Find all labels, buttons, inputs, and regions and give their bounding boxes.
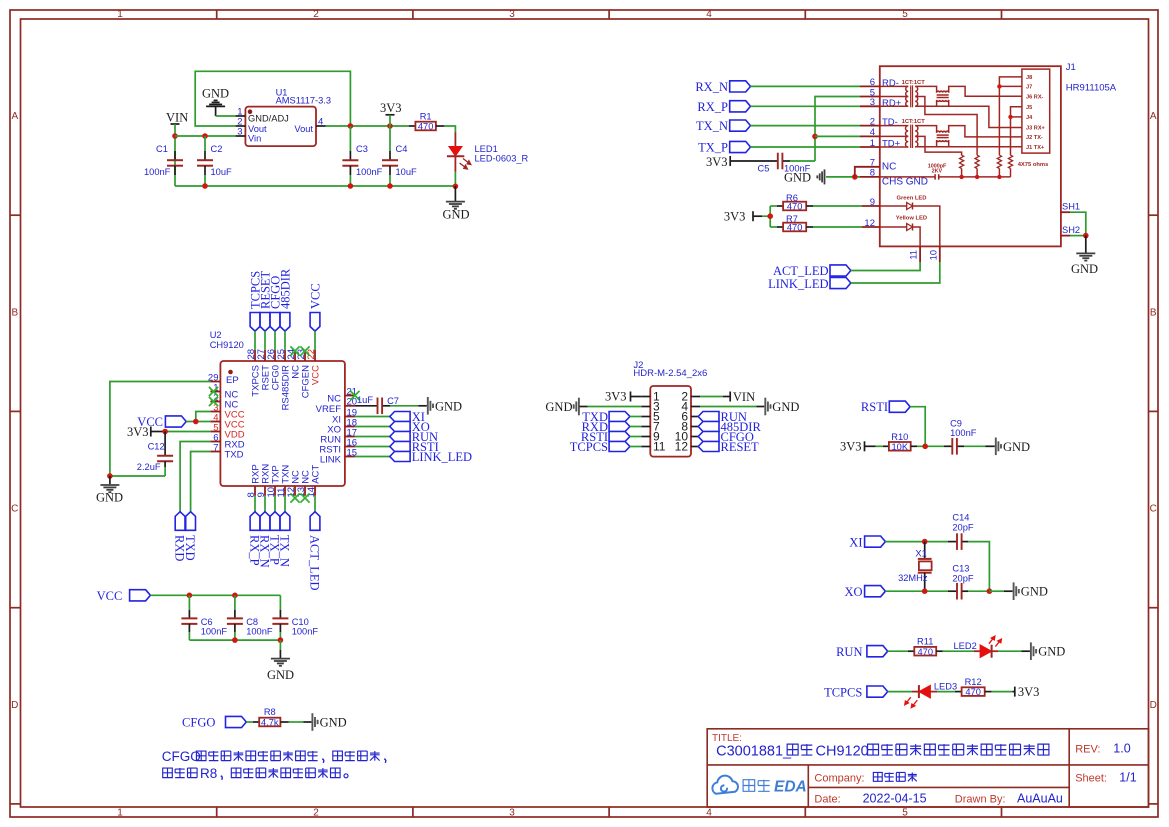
ground GND R8	[311, 713, 313, 731]
pin 25 U2 RS485DIR	[284, 350, 286, 361]
resistor 75ohm a	[960, 155, 964, 168]
svg-text:GND: GND	[1038, 645, 1065, 659]
wire TCPCS to LED3	[888, 691, 912, 693]
svg-text:GND: GND	[1021, 585, 1048, 599]
svg-text:CFGO: CFGO	[182, 716, 215, 730]
node C2 top	[202, 133, 208, 139]
net flag ACT_LED bottom	[314, 496, 316, 512]
net flag XI right	[355, 416, 390, 418]
svg-text:100nF: 100nF	[292, 627, 319, 637]
svg-text:R8: R8	[200, 766, 217, 781]
svg-text:J2 TX-: J2 TX-	[1026, 135, 1043, 141]
svg-text:VREF: VREF	[316, 404, 342, 415]
svg-text:3V3: 3V3	[706, 155, 728, 169]
capacitor C1	[174, 151, 176, 160]
svg-text:X1: X1	[915, 548, 926, 558]
ground GND J2 right	[700, 406, 757, 408]
svg-text:ACT: ACT	[310, 465, 321, 484]
svg-text:TX_P: TX_P	[698, 141, 728, 155]
svg-text:CHS GND: CHS GND	[882, 176, 928, 187]
svg-text:REV:: REV:	[1075, 744, 1100, 756]
pin 7 U2 TXD	[210, 451, 220, 453]
pin 4 J1	[860, 135, 880, 137]
svg-text:R8: R8	[264, 707, 276, 717]
svg-text:100nF: 100nF	[144, 167, 171, 177]
svg-text:LED1: LED1	[475, 144, 498, 154]
svg-text:C10: C10	[292, 617, 309, 627]
svg-text:3V3: 3V3	[605, 390, 627, 404]
svg-text:20pF: 20pF	[952, 573, 974, 583]
svg-text:RX_P: RX_P	[697, 100, 728, 114]
net flag 485DIR top	[280, 313, 290, 332]
svg-text:C2: C2	[211, 144, 223, 154]
svg-text:R10: R10	[891, 432, 908, 442]
svg-text:C8: C8	[246, 617, 258, 627]
node VIN junction	[172, 133, 178, 139]
svg-text:485DIR: 485DIR	[278, 268, 292, 309]
svg-text:SH1: SH1	[1062, 202, 1080, 212]
wire C7 to gnd	[390, 405, 419, 407]
net flag TXD	[186, 512, 196, 531]
pin 2 U2 NC	[210, 401, 220, 403]
capacitor C10	[279, 595, 281, 610]
power flag 3V3 LED3	[1012, 691, 1014, 693]
svg-text:2: 2	[870, 116, 875, 127]
svg-text:C3: C3	[356, 144, 368, 154]
node rail C10	[278, 637, 284, 643]
wire TX choke to J2	[949, 126, 1022, 137]
svg-text:10uF: 10uF	[211, 167, 233, 177]
pin 29 EP	[228, 370, 233, 375]
svg-text:TXD: TXD	[225, 450, 244, 461]
svg-text:1uF: 1uF	[357, 395, 373, 405]
svg-text:C1: C1	[156, 144, 168, 154]
svg-text:2: 2	[313, 9, 319, 20]
capacitor C6	[188, 595, 190, 610]
wire RXD down	[180, 442, 210, 512]
svg-text:100nF: 100nF	[356, 167, 383, 177]
svg-text:470: 470	[965, 687, 981, 697]
pin 5 J1	[860, 96, 880, 98]
svg-text:J3 RX+: J3 RX+	[1026, 126, 1046, 132]
pin 10 J1	[939, 246, 941, 262]
pin 11 J2	[641, 446, 650, 448]
node XI	[922, 539, 928, 545]
pin 3 J2	[641, 406, 650, 408]
resistor 75ohm d	[1008, 155, 1012, 168]
svg-text:D: D	[1150, 700, 1157, 711]
svg-text:GND/ADJ: GND/ADJ	[248, 114, 289, 124]
svg-text:470: 470	[917, 647, 933, 657]
wire RX_P	[751, 105, 861, 107]
node pin4 junction	[812, 134, 818, 140]
svg-text:RD+: RD+	[882, 98, 902, 109]
pin 1 J2	[641, 396, 650, 398]
svg-text:RESET: RESET	[721, 440, 760, 454]
svg-text:100nF: 100nF	[246, 627, 273, 637]
node VCC pins	[193, 419, 199, 425]
node 3V3 R6R7	[767, 213, 773, 219]
svg-text:HR911105A: HR911105A	[1066, 83, 1117, 94]
svg-text:2.2uF: 2.2uF	[137, 462, 161, 472]
pin 14 U2 ACT	[314, 486, 316, 496]
wire TXD J2	[630, 416, 641, 418]
pin SH2	[1061, 235, 1070, 237]
svg-text:GND: GND	[772, 400, 799, 414]
net flag TX_P bottom	[274, 496, 276, 512]
node VCC C8	[232, 593, 238, 599]
svg-text:GND: GND	[435, 399, 462, 413]
node rail C8	[232, 637, 238, 643]
svg-text:RX_N: RX_N	[695, 80, 728, 94]
choke TX common-mode	[915, 126, 936, 133]
wire gnd rail caps	[189, 639, 280, 641]
pin 3 U2 VCC	[210, 411, 220, 413]
svg-text:GND: GND	[1003, 440, 1030, 454]
svg-text:2KV: 2KV	[932, 169, 943, 175]
svg-text:J1: J1	[1066, 62, 1076, 73]
svg-text:CH9120: CH9120	[210, 340, 244, 350]
wire R6 to pin9	[813, 205, 862, 207]
wire R1 to LED1	[444, 126, 455, 132]
resistor R1	[409, 125, 415, 127]
wire J8 J7 to R75c	[999, 77, 1022, 155]
svg-text:R11: R11	[917, 637, 933, 647]
node gnd U2	[107, 473, 113, 479]
svg-text:1: 1	[117, 9, 123, 20]
svg-text:10K: 10K	[892, 442, 909, 452]
ground GND C7	[427, 397, 429, 415]
choke RX common-mode	[915, 86, 936, 92]
svg-text:C: C	[1150, 504, 1157, 515]
wire CHS GND rail	[939, 176, 1011, 178]
svg-text:10: 10	[928, 250, 938, 260]
svg-text:C5: C5	[758, 164, 770, 174]
svg-text:Vout: Vout	[294, 124, 313, 134]
wire RX center tap to R75b	[915, 97, 977, 156]
node rail C3	[348, 183, 354, 189]
pin 11 J1	[919, 246, 921, 262]
wire TX secondary bottom to J1TX+	[915, 146, 1022, 148]
net flag CFGO J2 right	[698, 436, 700, 438]
svg-text:9: 9	[870, 197, 875, 208]
pin 27 U2 RSET	[264, 350, 266, 361]
svg-text:LINK: LINK	[320, 455, 342, 466]
svg-text:GND: GND	[202, 87, 229, 101]
svg-text:C12: C12	[148, 441, 165, 451]
capacitor C9	[944, 445, 952, 447]
svg-text:AuAuAu: AuAuAu	[1017, 792, 1063, 806]
pin 2 J1	[860, 125, 880, 127]
net flag CFGO top	[270, 313, 280, 332]
svg-text:Company:: Company:	[814, 773, 864, 785]
wire J5 J4 to R75d	[1011, 107, 1022, 155]
svg-text:1.0: 1.0	[1113, 742, 1130, 756]
wire XO node	[885, 590, 948, 592]
svg-text:EDA: EDA	[774, 779, 807, 796]
wire gnd to pin8	[826, 176, 860, 178]
pin 4 U2 VCC	[210, 421, 220, 423]
svg-text:C: C	[11, 504, 18, 515]
op-amp U1 AMS1117-3.3	[245, 107, 316, 147]
svg-text:4: 4	[870, 127, 875, 138]
crystal X1 32MHz	[924, 542, 926, 559]
net flag RUN right	[355, 436, 390, 438]
wire C12 gnd	[110, 475, 165, 477]
wire TXD down	[191, 452, 211, 512]
pin 4 J2	[691, 406, 700, 408]
wire LED1 to rail	[454, 172, 456, 186]
svg-text:3V3: 3V3	[840, 440, 862, 454]
pin 19 U2 XI	[345, 416, 355, 418]
wire VCC rail	[150, 594, 280, 596]
svg-text:C6: C6	[201, 617, 213, 627]
svg-text:C4: C4	[396, 144, 408, 154]
net flag TCPCS top	[250, 313, 260, 332]
svg-text:VCC: VCC	[310, 365, 321, 385]
wire RSTI down	[910, 407, 925, 447]
pin 17 U2 RUN	[345, 436, 355, 438]
svg-text:J6 RX-: J6 RX-	[1026, 95, 1044, 101]
wire C14 down to gnd	[968, 542, 989, 592]
pin 16 U2 RSTI	[345, 446, 355, 448]
power flag VCC top	[310, 313, 320, 332]
pin 7 J1	[860, 166, 880, 168]
wire R8 to gnd	[289, 721, 304, 723]
wire yellow led to pin11	[913, 227, 921, 246]
pin 10 J2	[691, 436, 700, 438]
capacitor C5	[730, 160, 778, 162]
svg-text:U2: U2	[210, 330, 222, 340]
svg-text:J8: J8	[1026, 75, 1032, 81]
node rail LED1	[453, 184, 459, 190]
wire RX_N	[751, 85, 861, 87]
svg-text:20pF: 20pF	[952, 523, 974, 533]
svg-text:C9: C9	[950, 418, 962, 428]
svg-text:2: 2	[313, 808, 319, 819]
LED LED1	[454, 132, 456, 146]
no-connect X pin13	[300, 493, 309, 502]
svg-text:LINK_LED: LINK_LED	[412, 450, 472, 464]
svg-text:C7: C7	[387, 396, 399, 406]
wire Vout loop	[195, 71, 350, 126]
svg-text:EP: EP	[226, 375, 239, 386]
no-connect X pin23	[300, 346, 309, 355]
pin 7 J2	[641, 426, 650, 428]
svg-text:LINK_LED: LINK_LED	[768, 277, 828, 291]
wire GND to U1 pin1	[216, 115, 236, 117]
wire 3V3 to R6 R7	[762, 215, 770, 217]
pin 13 U2 NC	[304, 486, 306, 496]
node SH2	[1083, 233, 1089, 239]
svg-text:LED-0603_R: LED-0603_R	[475, 154, 529, 164]
wire CFGO to R8	[246, 721, 253, 723]
wire R7 to pin12	[813, 226, 862, 228]
pin 22 U2 VCC	[314, 350, 316, 361]
wire LINK_LED to pin10	[851, 262, 940, 283]
wire green led to pin10	[913, 206, 940, 246]
no-connect X pin2	[209, 397, 218, 406]
capacitor C7 VREF	[355, 405, 378, 407]
pin 1 J1	[860, 146, 880, 148]
pin 11 U2 TXN	[284, 486, 286, 496]
svg-text:XO: XO	[844, 585, 862, 599]
wire C13 to gnd	[968, 590, 989, 592]
svg-text:Date:: Date:	[814, 794, 840, 806]
node XO	[922, 588, 928, 594]
pin 9 J2	[641, 436, 650, 438]
svg-text:SH2: SH2	[1062, 225, 1080, 235]
wire 3V3 to VDD	[165, 431, 210, 433]
svg-text:GND: GND	[1071, 262, 1098, 276]
node J4 J5	[1008, 115, 1012, 119]
pin SH1	[1061, 211, 1070, 213]
net flag TX_N bottom	[284, 496, 286, 512]
wire TX center tap to R75a	[915, 136, 961, 155]
net flag 485DIR J2 right	[698, 426, 700, 428]
svg-text:B: B	[1150, 308, 1157, 319]
svg-text:CFGO: CFGO	[162, 749, 201, 764]
svg-text:1: 1	[117, 808, 123, 819]
wire R12 to 3V3	[992, 691, 1013, 693]
svg-text:Drawn By:: Drawn By:	[955, 794, 1006, 806]
svg-text:470: 470	[418, 122, 434, 132]
pin 12 U2 NC	[294, 486, 296, 496]
wire SH1 SH2 gnd	[1070, 212, 1086, 235]
svg-text:2022-04-15: 2022-04-15	[863, 792, 927, 806]
svg-text:GND: GND	[96, 491, 123, 505]
svg-text:Vin: Vin	[248, 134, 261, 144]
svg-text:HDR-M-2.54_2x6: HDR-M-2.54_2x6	[633, 368, 707, 379]
svg-text:VIN: VIN	[733, 390, 755, 404]
ground GND C9	[995, 438, 997, 456]
wire gnd to pin3	[580, 406, 588, 408]
svg-text:32MHz: 32MHz	[898, 573, 928, 583]
capacitor C12	[164, 432, 166, 456]
svg-text:GND: GND	[320, 716, 347, 730]
svg-text:4: 4	[706, 9, 712, 20]
svg-text:J1 TX+: J1 TX+	[1026, 145, 1045, 151]
svg-text:4: 4	[318, 117, 323, 128]
pin 10 U2 TXP	[274, 486, 276, 496]
svg-text:3V3: 3V3	[380, 101, 402, 115]
svg-text:11: 11	[909, 250, 919, 260]
svg-text:100nF: 100nF	[950, 428, 977, 438]
pin 2 J2	[691, 396, 700, 398]
logo EasyEDA	[712, 776, 738, 794]
node output 3V3	[387, 123, 393, 129]
svg-text:1/1: 1/1	[1119, 771, 1136, 785]
capacitor C13	[948, 590, 957, 592]
node output C3	[348, 123, 354, 129]
svg-text:C14: C14	[952, 513, 969, 523]
wire LED3 to R12	[937, 691, 955, 693]
svg-text:Vout: Vout	[248, 124, 267, 134]
wire U1 output rail	[326, 125, 409, 127]
svg-text:A: A	[1150, 111, 1157, 122]
ground GND crystal	[1013, 582, 1015, 600]
svg-text:GND: GND	[267, 668, 294, 682]
wire TCPCS to pin	[254, 331, 256, 350]
pin 9 U2 RXN	[264, 486, 266, 496]
wire C9 to gnd	[964, 445, 985, 447]
wire RX secondary bottom to J3	[915, 106, 1022, 127]
svg-text:Sheet:: Sheet:	[1075, 773, 1107, 785]
svg-text:LED2: LED2	[954, 641, 977, 651]
svg-text:VCC: VCC	[308, 283, 322, 309]
pin 20 U2 VREF	[345, 405, 355, 407]
svg-text:CH9120: CH9120	[816, 743, 869, 759]
svg-text:1: 1	[870, 138, 875, 149]
svg-text:100nF: 100nF	[201, 627, 228, 637]
wire TX_P	[751, 146, 861, 148]
pin 8 J1	[860, 176, 880, 178]
svg-text:R12: R12	[965, 677, 982, 687]
svg-text:3: 3	[237, 127, 242, 138]
pin 6 J2	[691, 416, 700, 418]
IC U2 CH9120 outline	[220, 361, 345, 486]
svg-text:3V3: 3V3	[1018, 685, 1040, 699]
wire ACT_LED to pin11	[851, 262, 920, 271]
pin 26 U2 CFG0	[274, 350, 276, 361]
net flag RX_N bottom	[264, 496, 266, 512]
no-connect X pin12	[290, 493, 299, 502]
wire VCC to pins 3 4	[186, 421, 196, 423]
capacitor C2	[204, 136, 206, 151]
wire TCPCS J2	[630, 446, 641, 448]
connector J1 inner pins box	[1022, 69, 1050, 153]
ground GND LED2	[1030, 642, 1032, 660]
wire 485DIR to pin	[284, 331, 286, 350]
svg-text:5: 5	[902, 808, 908, 819]
svg-text:470: 470	[787, 223, 803, 233]
svg-text:C3001881_: C3001881_	[716, 743, 792, 759]
ground GND SH	[1085, 236, 1087, 253]
wire RSTI J2	[630, 436, 641, 438]
svg-text:Green LED: Green LED	[897, 195, 927, 201]
svg-text:10uF: 10uF	[396, 167, 418, 177]
wire C5 to pin5/pin4	[790, 160, 815, 162]
wire VIN vertical	[174, 124, 176, 186]
net flag RUN J2 right	[698, 416, 700, 418]
power flag VIN J2	[700, 396, 723, 398]
svg-text:XI: XI	[849, 535, 862, 549]
svg-text:RD-: RD-	[882, 78, 899, 89]
svg-text:8: 8	[870, 168, 875, 179]
svg-text:3: 3	[509, 9, 515, 20]
svg-text:TD-: TD-	[882, 117, 898, 128]
svg-text:11: 11	[653, 440, 666, 454]
wire RXD J2	[630, 426, 641, 428]
svg-text:3: 3	[509, 808, 515, 819]
svg-text:R1: R1	[420, 112, 432, 122]
svg-text:TCPCS: TCPCS	[824, 685, 862, 699]
svg-text:J4: J4	[1026, 115, 1033, 121]
net flag RX_P bottom	[254, 496, 256, 512]
node C13 C14 gnd	[987, 588, 993, 594]
svg-text:GND: GND	[443, 208, 470, 222]
wire CFGO to pin	[274, 331, 276, 350]
wire RUN to R11	[888, 650, 908, 652]
wire EP to gnd	[110, 382, 210, 477]
svg-text:NC: NC	[882, 161, 896, 172]
svg-text:VCC: VCC	[97, 589, 123, 603]
wire bottom rail U1	[175, 185, 455, 187]
pin 5 J2	[641, 416, 650, 418]
capacitor C3	[349, 126, 351, 151]
pin 18 U2 XO	[345, 426, 355, 428]
svg-text:ACT_LED: ACT_LED	[307, 535, 321, 591]
